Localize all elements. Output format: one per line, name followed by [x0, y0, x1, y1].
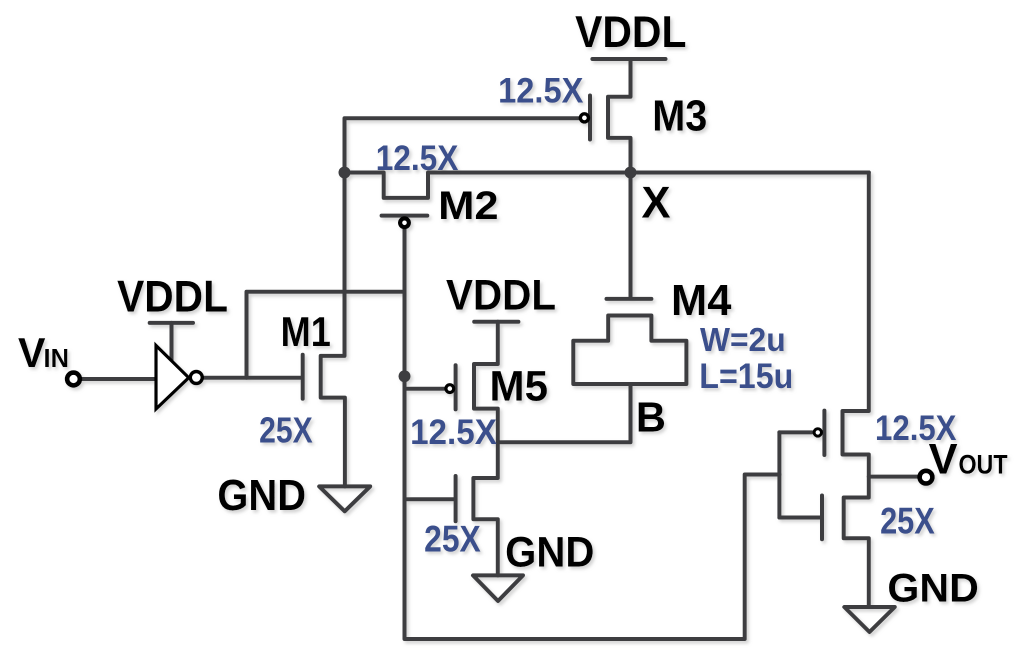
wire VIN input	[81, 377, 158, 381]
transistor M3 channel from VDDL to node X	[608, 59, 631, 173]
svg-text:GND: GND	[217, 471, 306, 520]
svg-text:M5: M5	[490, 362, 549, 410]
wire output PMOS gate	[779, 430, 812, 434]
transistor M2 gate bar	[382, 214, 428, 218]
wire junction to M3 gate	[345, 118, 580, 172]
wire M4 bottom to node B to M5 drain	[498, 384, 631, 442]
svg-text:12.5X: 12.5X	[376, 139, 459, 178]
svg-text:V: V	[18, 330, 46, 376]
svg-text:VDDL: VDDL	[117, 272, 228, 322]
svg-text:GND: GND	[887, 565, 978, 610]
transistor M1 channel and source to ground	[321, 173, 345, 487]
wire inverter output to M1 gate	[204, 376, 303, 380]
wire M5 gate	[405, 387, 445, 391]
svg-text:12.5X: 12.5X	[498, 71, 584, 110]
ground triangle M1	[319, 486, 370, 511]
node junction dot gate bus	[399, 370, 411, 382]
power VDDL bar (top, M3)	[592, 57, 665, 61]
inverter U1 triangle	[156, 346, 189, 410]
svg-text:12.5X: 12.5X	[875, 409, 956, 448]
svg-text:25X: 25X	[259, 411, 313, 451]
power VDDL bar (inverter)	[150, 321, 193, 325]
svg-text:X: X	[642, 178, 671, 227]
svg-text:M1: M1	[281, 310, 331, 356]
terminal VIN	[67, 373, 80, 386]
transistor M1 gate bar	[301, 355, 305, 399]
svg-text:L=15u: L=15u	[699, 357, 793, 397]
wire output NMOS gate	[779, 516, 820, 520]
wire VDDL to inverter	[170, 323, 174, 362]
transistor M3 gate bar	[588, 96, 592, 140]
power VDDL bar (middle, M5)	[474, 320, 518, 324]
svg-text:M3: M3	[652, 91, 707, 140]
svg-text:GND: GND	[505, 528, 594, 575]
transistor output PMOS gate bar	[822, 411, 826, 455]
node junction dot X	[625, 167, 637, 179]
wire M2 gate bus down and bottom feedback to output gates	[405, 228, 780, 640]
svg-text:VDDL: VDDL	[575, 8, 686, 58]
svg-text:B: B	[636, 394, 666, 441]
wire output gate bus vertical	[777, 432, 781, 517]
capacitor M4 body	[573, 316, 686, 385]
svg-text:OUT: OUT	[958, 450, 1008, 480]
bubble M5 gate	[446, 385, 454, 393]
transistor M5 gate bar	[454, 365, 458, 409]
inverter U1 output bubble	[190, 372, 202, 384]
svg-text:25X: 25X	[880, 501, 935, 542]
svg-text:VDDL: VDDL	[446, 271, 556, 319]
svg-text:12.5X: 12.5X	[410, 413, 497, 452]
wire node X to output stage	[843, 173, 869, 608]
capacitor M4 top plate	[607, 297, 652, 301]
ground triangle right	[844, 607, 895, 632]
node junction dot (M1 drain)	[339, 167, 351, 179]
bubble M2 gate	[400, 218, 409, 227]
transistor lower NMOS gate bar	[454, 476, 458, 521]
bubble M3 gate	[580, 114, 588, 122]
svg-text:M4: M4	[671, 277, 731, 325]
wire node X down to M4 top plate	[629, 173, 633, 297]
svg-text:M2: M2	[438, 183, 499, 228]
ground triangle middle	[473, 575, 523, 601]
terminal VOUT	[920, 471, 933, 484]
wire VOUT	[869, 475, 918, 479]
wire inverter output to M2 gate bus	[247, 292, 405, 378]
transistor output NMOS gate bar	[820, 496, 824, 540]
bubble output PMOS gate	[814, 429, 821, 436]
svg-text:W=2u: W=2u	[700, 321, 786, 358]
wire lower NMOS gate	[405, 497, 455, 501]
svg-text:25X: 25X	[424, 520, 481, 561]
wire node X row with M2 channel dip	[345, 173, 869, 198]
svg-text:IN: IN	[44, 345, 69, 373]
transistor M5 and lower NMOS channels to ground	[473, 322, 497, 576]
